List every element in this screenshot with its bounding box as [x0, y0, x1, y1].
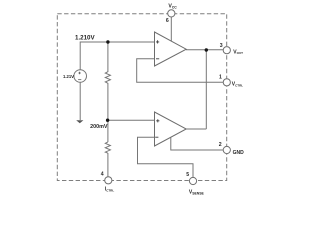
svg-text:5: 5 [186, 172, 189, 178]
svg-text:1.21V: 1.21V [63, 74, 74, 79]
svg-text:1: 1 [219, 74, 222, 80]
svg-text:4: 4 [101, 172, 104, 178]
svg-text:200mV: 200mV [90, 124, 108, 130]
svg-text:3: 3 [220, 43, 223, 49]
svg-text:GND: GND [233, 150, 245, 156]
svg-text:2: 2 [219, 142, 222, 148]
svg-text:1.210V: 1.210V [75, 35, 95, 42]
svg-text:6: 6 [166, 18, 169, 24]
